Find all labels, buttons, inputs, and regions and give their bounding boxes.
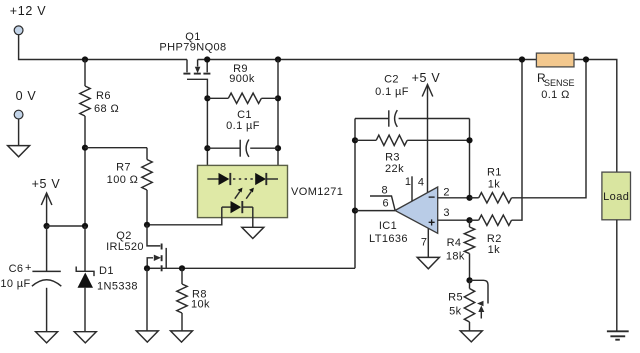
ground (Q2 source) <box>136 331 158 342</box>
ground (0V terminal) <box>8 146 30 157</box>
svg-text:C2: C2 <box>384 74 399 86</box>
resistor R6 <box>80 60 119 117</box>
svg-text:PHP79NQ08: PHP79NQ08 <box>159 42 226 54</box>
wire 0V to ground <box>18 119 20 145</box>
resistor R4 <box>446 220 475 280</box>
node: Q1 drain on rail <box>204 56 210 62</box>
wire +12V down to rail <box>19 35 187 60</box>
wire Q2 gate line to op-amp column <box>160 267 355 269</box>
LED D4 (in opto) <box>222 201 253 213</box>
ground (opto) <box>242 227 264 238</box>
load box <box>602 172 631 220</box>
ground (D1) <box>74 332 96 343</box>
transistor Q1 PHP79NQ08 <box>159 31 226 98</box>
svg-text:LT1636: LT1636 <box>369 233 408 245</box>
potentiometer R5 <box>448 280 488 331</box>
svg-text:R5: R5 <box>448 292 463 304</box>
feedback column left (output node) <box>354 119 356 269</box>
pin 1 stub <box>405 176 412 201</box>
resistor R8 <box>177 268 210 331</box>
node: pin2/R1/R3 junction <box>466 195 472 201</box>
node: R7/Q2 drain/opto <box>144 222 150 228</box>
photodiode D3 (right, in opto) <box>255 173 278 185</box>
wire opto LED anode out to Q2 drain node <box>147 207 222 225</box>
node: rail/R6 junction <box>82 56 88 62</box>
main rail (right of Q1 to Rsense) <box>198 59 537 61</box>
node: C1 left <box>204 145 210 151</box>
node: +5V/C6 junction <box>44 223 50 229</box>
resistor R3 <box>355 135 470 175</box>
svg-text:0 V: 0 V <box>16 89 37 103</box>
ground (C6) <box>36 332 58 343</box>
dotted link between photodiodes <box>233 178 254 180</box>
pin 3 wire <box>438 207 470 220</box>
node: rail/R2 column (Rsense left) <box>519 56 525 62</box>
feedback column right <box>469 119 471 198</box>
svg-text:10k: 10k <box>191 299 210 311</box>
svg-text:22k: 22k <box>385 163 404 175</box>
svg-text:R3: R3 <box>385 152 400 164</box>
svg-text:+: + <box>25 262 32 274</box>
zener diode D1 1N5338 <box>76 226 138 332</box>
node: D1 top junction <box>82 223 88 229</box>
wire left column Q1 gate down into opto <box>206 98 208 179</box>
+5 V supply arrow (left) <box>32 177 61 226</box>
svg-text:IC1: IC1 <box>379 220 397 232</box>
node: R6/R7 wire junction <box>82 145 88 151</box>
resistor R1 <box>470 60 587 204</box>
svg-text:2: 2 <box>443 187 450 199</box>
optocoupler U2 VOM1271 body <box>198 165 344 217</box>
resistor R7 <box>107 148 153 225</box>
svg-text:0.1 Ω: 0.1 Ω <box>541 89 570 101</box>
node: R3 left <box>352 137 358 143</box>
svg-text:0.1 µF: 0.1 µF <box>226 120 260 132</box>
capacitor C6 <box>0 226 61 332</box>
light arrows in opto <box>235 188 254 199</box>
ground (R5) <box>460 331 482 342</box>
svg-text:1N5338: 1N5338 <box>97 281 138 293</box>
svg-text:R1: R1 <box>487 167 502 179</box>
svg-text:VOM1271: VOM1271 <box>291 186 343 198</box>
resistor R9 <box>207 63 278 104</box>
svg-text:4: 4 <box>418 177 425 189</box>
svg-text:+12 V: +12 V <box>10 4 47 18</box>
wire Q2 source to ground <box>146 268 148 331</box>
capacitor C2 <box>355 74 470 127</box>
svg-text:6: 6 <box>383 198 390 210</box>
svg-text:7: 7 <box>421 237 428 249</box>
pin 2 wire <box>438 187 470 199</box>
svg-text:IRL520: IRL520 <box>106 241 144 253</box>
svg-text:5k: 5k <box>449 306 462 318</box>
svg-text:68 Ω: 68 Ω <box>94 103 119 115</box>
svg-text:10 µF: 10 µF <box>0 278 30 290</box>
svg-text:R7: R7 <box>116 162 131 174</box>
wire R6 bottom column to D1 <box>84 116 86 226</box>
wire right column rail down into opto <box>277 60 279 180</box>
svg-text:SENSE: SENSE <box>544 78 575 88</box>
node: rail/R1 column (Rsense right) <box>583 56 589 62</box>
svg-text:8: 8 <box>382 185 389 197</box>
svg-text:+5 V: +5 V <box>32 177 61 191</box>
resistor Rsense <box>536 53 574 101</box>
wire opto LED cathode to ground <box>252 207 254 227</box>
ground (R8) <box>171 331 193 342</box>
pin 7 wire to ground <box>421 229 428 258</box>
+12 V terminal <box>10 4 47 35</box>
node: R4/R5 junction <box>466 277 472 283</box>
svg-text:C6: C6 <box>9 263 24 275</box>
+5 V supply arrow (op-amp) <box>412 71 441 193</box>
photodiode D2 (left, in opto) <box>207 173 230 185</box>
svg-text:0.1 µF: 0.1 µF <box>375 86 409 98</box>
rail from Rsense to Load corner <box>574 60 617 173</box>
svg-text:D1: D1 <box>99 265 114 277</box>
ground (IC1 pin 7) <box>417 257 439 268</box>
svg-text:+: + <box>428 216 435 230</box>
pin 8 stub <box>370 185 395 211</box>
node: R8 top <box>179 265 185 271</box>
node: C1 right <box>275 145 281 151</box>
svg-text:−: − <box>428 190 435 204</box>
wire load to earth ground <box>616 220 618 331</box>
pin 4 label <box>418 177 425 189</box>
svg-text:18k: 18k <box>446 251 465 263</box>
svg-text:Load: Load <box>603 191 629 203</box>
0 V terminal <box>14 89 36 119</box>
svg-text:R6: R6 <box>96 90 111 102</box>
node: Q2 source / ground column <box>144 265 150 271</box>
svg-text:900k: 900k <box>229 73 255 85</box>
capacitor C1 <box>207 109 278 157</box>
resistor R2 <box>470 60 523 257</box>
op-amp IC1 LT1636 <box>369 187 438 245</box>
node: output/feedback <box>352 208 358 214</box>
wire to R7 <box>85 147 147 149</box>
svg-text:R4: R4 <box>447 237 462 249</box>
svg-text:1k: 1k <box>488 244 501 256</box>
wire +5V node to D1 node <box>47 225 85 227</box>
wire op-amp output (pin 6) <box>355 210 395 212</box>
node: gate/R9 left <box>204 95 210 101</box>
svg-text:1k: 1k <box>488 179 501 191</box>
svg-text:3: 3 <box>443 207 450 219</box>
node: R3 right <box>466 137 472 143</box>
node: pin3/R2/R4 junction <box>466 217 472 223</box>
node: rail/R9-C1 right column <box>275 56 281 62</box>
pin 6 label <box>383 198 390 210</box>
node: R9 right <box>275 95 281 101</box>
transistor Q2 IRL520 <box>106 225 166 271</box>
earth ground (load) <box>607 331 629 339</box>
svg-text:+5 V: +5 V <box>412 71 441 85</box>
svg-text:100 Ω: 100 Ω <box>107 174 139 186</box>
svg-text:1: 1 <box>405 176 412 188</box>
